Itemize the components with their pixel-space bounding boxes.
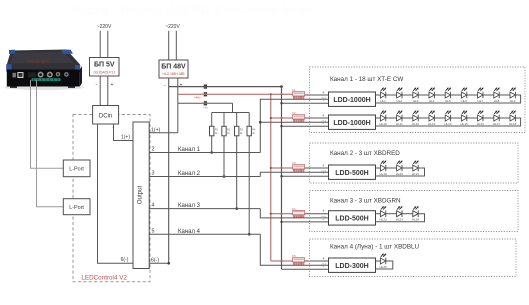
node +48V bus tap [270,167,272,169]
fuse F5 [293,258,305,265]
block Output [133,122,149,269]
LED HL12 [413,115,418,122]
wire mains L to BP48V [168,31,170,60]
wire -48V to driver LDD-1000H minus pin [282,102,329,104]
resistor R2 1k [222,126,226,136]
wire fuse F4 to driver plus pin [305,213,329,215]
LED HL24 [413,210,418,217]
dashed box Канал 4 (Луна) - 1 шт XBDBLU [310,239,517,277]
wire +48V vertical bus (red) [270,94,272,261]
svg-text:HL10: HL10 [380,122,388,126]
wire driver LDD-500H output string [376,213,381,215]
svg-text:Output: Output [137,185,144,204]
svg-text:+: + [180,83,183,89]
dashed box Канал 2 - 3 шт XBDRED [310,143,519,183]
LED HL1 [380,92,385,99]
LED HL22 [380,210,385,217]
svg-text:HL11: HL11 [396,122,403,126]
connector pair on +5V rail [204,101,207,105]
wire -48V to driver LDD-300H minus pin [282,268,329,270]
svg-text:3: 3 [152,171,155,177]
driver LDD-500H [329,165,376,179]
power supply BP 48V (HLG-185H-48B) [159,60,188,78]
node +48V rail to red bus [270,93,272,95]
power supply BP 5V (GS15A05-P1J) [90,58,120,77]
resistor R3 1k [235,126,239,136]
LED HL6 [461,92,466,99]
wire pin 1(+) to +5V riser [149,132,178,134]
svg-text:HL25: HL25 [380,265,388,269]
wire LED string return to driver minus out [376,95,521,103]
wire channel 3 dim to driver 4 [260,209,328,218]
wire DCin minus to Output 6(-) [98,124,134,263]
svg-text:DCin: DCin [99,114,112,120]
LED HL23 [397,210,402,217]
resistor R1 1k [210,126,214,136]
fuse F4 [293,210,305,217]
svg-text:HL19: HL19 [380,172,388,176]
svg-text:1(+): 1(+) [121,135,130,141]
LED HL8 [494,92,499,99]
svg-text:F4: F4 [292,207,296,211]
svg-text:HL18: HL18 [509,122,517,126]
wire fuse F2 to driver plus pin [305,117,329,119]
wire channel 1 dim riser to driver 1 [260,99,328,152]
driver LDD-300H [329,258,376,272]
node +48V bus tap [270,117,272,119]
node +48V bus tap [270,213,272,215]
fuse F1 [293,92,305,99]
wire -48V to driver LDD-500H minus pin [282,175,329,177]
connector pair on +48V rail [204,92,207,96]
svg-text:HL20: HL20 [396,172,404,176]
svg-text:LDD-500H: LDD-500H [335,216,368,223]
block DCin [93,106,119,125]
LED HL18 [510,115,515,122]
block L-Port 2 [63,199,90,215]
wire BP48V minus vertical down to 6(-) [168,78,170,263]
wire resistor R3 bottom leg [236,136,238,209]
svg-text:L-Port: L-Port [69,167,84,173]
wire -48V to driver LDD-1000H minus pin [282,125,329,127]
svg-text:HL15: HL15 [461,122,469,126]
wire +48V to fuse F3 [271,167,293,169]
wire -48V vertical bus [281,87,283,270]
LED HL5 [445,92,450,99]
wire BP5V minus to DCin [99,76,101,106]
device photo: LEDControl4 controller unit [4,85,84,90]
svg-text:F3: F3 [292,161,296,165]
svg-text:F2: F2 [292,111,296,115]
wire fuse F3 to driver plus pin [305,167,329,169]
svg-text:R1: R1 [215,128,219,132]
wire pin 6(-) to -48V [149,262,169,264]
LED HL25 [380,258,385,265]
dashed box Канал 3 - 3 шт XBDGRN [310,191,519,232]
wire +48V rail (red) [178,93,293,95]
driver LDD-1000H [329,115,376,129]
LED HL17 [494,115,499,122]
wire fuse F5 to driver plus pin [305,260,329,262]
node R1 to channel 1 wire [210,151,213,154]
LED HL16 [478,115,483,122]
wire BP5V plus to DCin [107,76,109,106]
svg-text:HL23: HL23 [396,218,404,222]
svg-text:L-Port: L-Port [69,205,84,211]
wire mains N to BP5V [107,31,109,58]
svg-text:HL3: HL3 [413,99,419,103]
svg-text:БП 48V: БП 48V [161,64,186,71]
wire resistor bus [212,112,250,114]
wire mains L to BP5V [99,31,101,58]
node channel 1 dim branch [259,121,262,124]
wire resistor R1 bottom leg [211,136,213,153]
svg-text:HL7: HL7 [478,99,484,103]
svg-text:HL24: HL24 [412,218,420,222]
LED HL14 [445,115,450,122]
driver LDD-500H [329,211,376,225]
resistor R4 1k [247,126,251,136]
wire resistor R4 bottom leg [248,136,250,235]
svg-text:+5v: +5v [203,106,208,110]
LED HL13 [429,115,434,122]
svg-text:HLG-185H-48B: HLG-185H-48B [163,72,185,76]
LED HL10 [380,115,385,122]
svg-text:LDD-1000H: LDD-1000H [333,120,370,127]
svg-text:4: 4 [152,203,155,209]
wire BP48V plus down [177,78,179,94]
svg-text:HL2: HL2 [397,99,403,103]
svg-text:R3: R3 [240,128,244,132]
wire channel 4 dim to driver 5 [260,234,328,265]
wire Канал 2 [149,176,260,178]
LED HL3 [413,92,418,99]
wire driver LDD-300H output string [376,260,381,262]
node R3 to channel 3 wire [235,207,238,210]
wire LED string return to driver minus out [376,261,393,269]
fuse F3 [293,165,305,172]
wire channel 2 dim to driver 3 [260,172,328,176]
wire -48V rail horizontal [169,86,282,88]
LED HL7 [478,92,483,99]
wire +48V to fuse F4 [271,213,293,215]
wire Канал 1 [149,152,260,154]
fuse F2 [293,115,305,122]
wire driver LDD-1000H output string [376,117,381,119]
svg-text:HL5: HL5 [445,99,451,103]
LED HL2 [397,92,402,99]
svg-text:HL14: HL14 [444,122,452,126]
LED HL4 [429,92,434,99]
svg-text:HL4: HL4 [429,99,435,103]
svg-text:HL13: HL13 [428,122,436,126]
wire Канал 4 [149,233,260,235]
wire +5V rail to pull-up resistors [178,102,233,104]
node 6(-) junction [167,262,170,265]
wire driver LDD-1000H output string [376,94,381,96]
svg-text:5: 5 [152,228,155,234]
wire +48V to fuse F2 [271,117,293,119]
svg-text:HL6: HL6 [461,99,467,103]
node -48V bus tap [280,125,282,127]
svg-text:Канал 1 - 18 шт XT-E CW: Канал 1 - 18 шт XT-E CW [330,76,403,83]
svg-text:Канал 4 (Луна) - 1 шт XBDBLU: Канал 4 (Луна) - 1 шт XBDBLU [330,244,420,251]
dashed outline LEDControl4 V2 controller [73,115,150,282]
wire device to L-Port 2 [37,80,64,207]
LED HL11 [397,115,402,122]
svg-text:HL17: HL17 [493,122,501,126]
wire mains N to BP48V [175,31,177,60]
wire vertical 1(+) riser [177,94,179,132]
wire fuse F1 to driver plus pin [305,94,329,96]
wire +48V to fuse F5 [271,260,293,262]
svg-text:R2: R2 [227,128,231,132]
svg-text:Aqa.ru - Tropica MACRO S aquar: Aqa.ru - Tropica MACRO S aquarium forum [70,3,316,17]
wire resistor R2 bottom leg [223,136,225,177]
svg-text:HL12: HL12 [412,122,420,126]
node -48V bus tap [280,102,282,104]
svg-text:HL9: HL9 [510,99,516,103]
svg-text:2: 2 [152,147,155,153]
svg-text:+48V: +48V [194,96,201,100]
driver LDD-1000H [329,92,376,106]
svg-text:HL22: HL22 [380,218,388,222]
svg-text:AquaLight: AquaLight [27,59,49,64]
wire LED string return to driver minus out [376,168,425,176]
svg-text:F1: F1 [292,88,296,92]
wire resistor R1 top leg [211,113,213,127]
wire LED string return to driver minus out [376,214,425,222]
svg-text:LDD-300H: LDD-300H [335,263,368,270]
wire +5V down to resistor bus [232,103,234,112]
svg-text:HL21: HL21 [412,172,420,176]
svg-text:LDD-1000H: LDD-1000H [333,97,370,104]
svg-text:HL8: HL8 [494,99,500,103]
wire resistor R2 top leg [223,113,225,127]
LED HL9 [510,92,515,99]
wire resistor R4 top leg [248,113,250,127]
wire channel 1 dim to driver 2 [260,121,328,123]
wire device to L-Port 1 [31,80,64,168]
svg-text:~220V: ~220V [97,24,112,30]
node -48V bus tap [280,221,282,223]
svg-text:GS15A05-P1J: GS15A05-P1J [93,71,115,75]
node -48V bus tap [280,175,282,177]
wire DCin plus to Output 1(+) [114,124,134,141]
svg-text:LDD-500H: LDD-500H [335,170,368,177]
svg-text:+: + [111,82,114,88]
LED HL20 [397,165,402,172]
svg-text:БП 5V: БП 5V [94,62,115,69]
connector pair on -48V rail [204,85,207,89]
LED HL21 [413,165,418,172]
dashed box Канал 1 - 18 шт XT-E CW [310,67,526,133]
svg-text:Канал 3 - 3 шт XBDGRN: Канал 3 - 3 шт XBDGRN [330,198,401,205]
svg-text:F5: F5 [292,254,296,258]
svg-text:HL16: HL16 [477,122,485,126]
LED HL15 [461,115,466,122]
block L-Port 1 [63,160,90,177]
svg-text:R4: R4 [252,128,256,132]
svg-text:~220V: ~220V [165,24,180,30]
svg-text:6(-): 6(-) [121,257,129,263]
LED HL19 [380,165,385,172]
svg-text:6(-): 6(-) [151,257,159,263]
wire resistor R3 top leg [236,113,238,127]
svg-text:Канал 2 - 3 шт XBDRED: Канал 2 - 3 шт XBDRED [330,150,400,157]
node R2 to channel 2 wire [223,175,226,178]
wire LED string return to driver minus out [376,118,521,126]
svg-text:LEDControl4 V2: LEDControl4 V2 [81,275,127,282]
node -48V rail to bus junction [280,85,283,88]
svg-text:HL1: HL1 [380,99,386,103]
node R4 to channel 4 wire [248,233,251,236]
wire Канал 3 [149,208,260,210]
wire driver LDD-500H output string [376,167,381,169]
wire -48V to driver LDD-500H minus pin [282,221,329,223]
